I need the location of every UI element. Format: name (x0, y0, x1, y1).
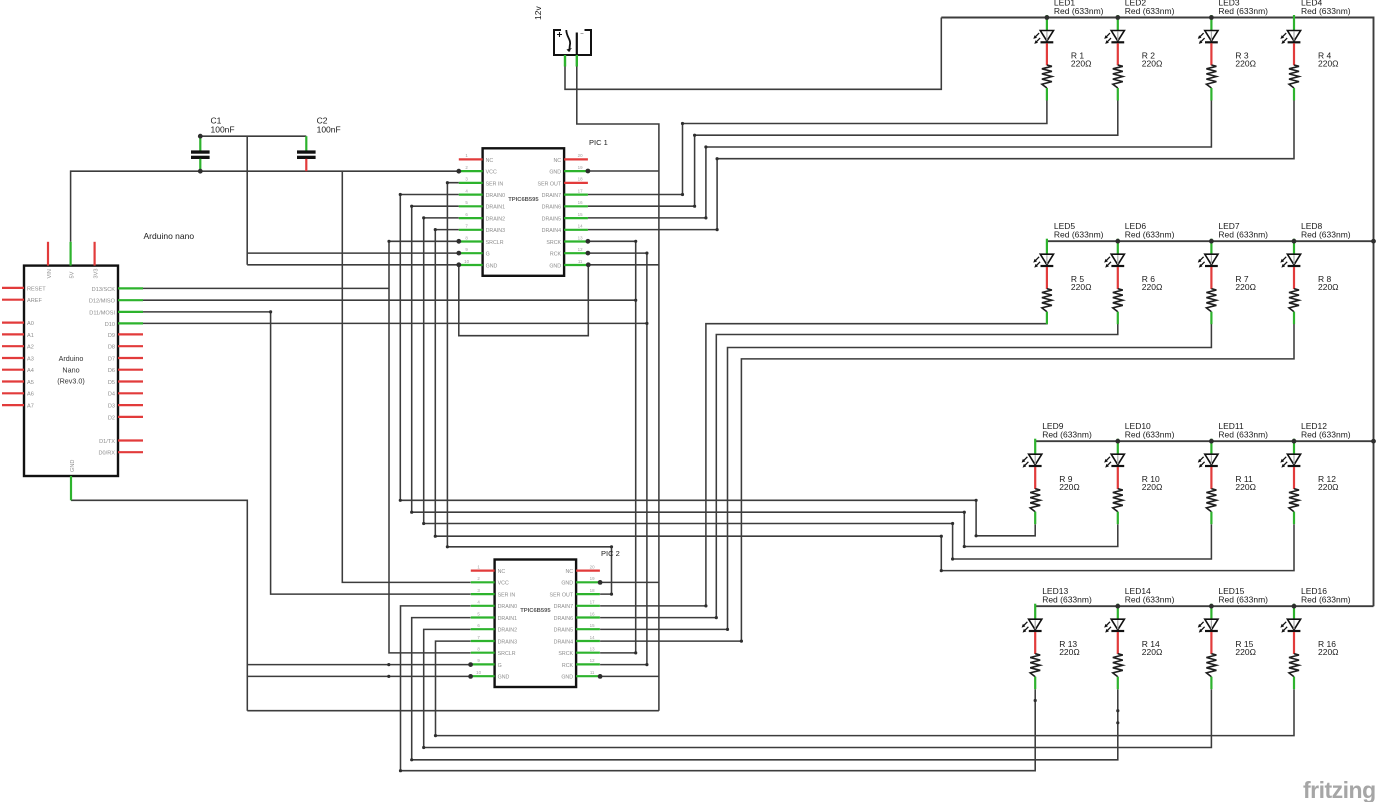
node joint-D10-RCK (645, 322, 648, 325)
capacitor C2 100nF (297, 116, 341, 172)
PIC2 pin 7 DRAIN3 (471, 640, 495, 642)
svg-text:AREF: AREF (27, 298, 43, 304)
svg-text:D7: D7 (108, 356, 115, 362)
svg-text:15: 15 (578, 212, 583, 217)
wire bus row2 (1047, 240, 1374, 242)
node joint-G2 (387, 663, 390, 666)
PIC1 pin 17 DRAIN7 (564, 194, 588, 196)
svg-text:A3: A3 (27, 356, 34, 362)
wire SRCLR chain PIC1-PIC2 (389, 241, 471, 653)
LED15 Red (633nm) (1198, 586, 1268, 654)
svg-text:12v: 12v (533, 6, 543, 20)
svg-text:Red (633nm): Red (633nm) (1218, 595, 1268, 605)
node PIC1-p13 (586, 239, 591, 244)
Arduino pin D4 (118, 392, 143, 394)
PIC2 pin 1 NC (471, 569, 495, 571)
svg-text:SER OUT: SER OUT (550, 593, 574, 599)
svg-text:D4: D4 (108, 392, 115, 398)
node joint-D12-SRCK (634, 299, 637, 302)
PIC2 pin 2 VCC (471, 581, 495, 583)
svg-text:G: G (498, 663, 502, 669)
svg-text:DRAIN5: DRAIN5 (554, 628, 573, 634)
PIC1 pin 6 DRAIN2 (459, 217, 483, 219)
PIC1 pin 2 VCC (459, 170, 483, 172)
svg-text:220Ω: 220Ω (1142, 282, 1163, 292)
svg-text:A4: A4 (27, 368, 34, 374)
svg-text:GND: GND (549, 170, 561, 176)
Arduino pin GND (70, 476, 72, 500)
svg-text:SER IN: SER IN (498, 593, 516, 599)
svg-text:A7: A7 (27, 404, 34, 410)
LED14 Red (633nm) (1104, 586, 1174, 654)
svg-text:D10: D10 (105, 322, 115, 328)
node bus2-right (1371, 239, 1376, 244)
svg-text:14: 14 (578, 224, 583, 229)
Arduino pin VIN (47, 242, 49, 266)
resistor R12 220ohm (1289, 474, 1339, 524)
svg-text:Arduino nano: Arduino nano (144, 231, 195, 241)
LED10 Red (633nm) (1104, 421, 1174, 489)
svg-text:GND: GND (561, 581, 573, 587)
PIC1 pin 14 DRAIN4 (564, 229, 588, 231)
svg-text:DRAIN4: DRAIN4 (542, 228, 561, 234)
wire R12 to DRAIN3 (435, 230, 1294, 571)
resistor R1 220ohm (1042, 50, 1092, 100)
node bus3-LED11 (1209, 439, 1214, 444)
PIC1 pin 10 GND (459, 264, 483, 266)
wire RCK1 to RCK2 (588, 253, 647, 664)
node bend-R13 (399, 769, 402, 772)
svg-text:D5: D5 (108, 380, 115, 386)
PIC1 pin 11 GND (564, 264, 588, 266)
wire R4 to DRAIN4 (588, 101, 1294, 230)
node bend-P2D6 (715, 616, 718, 619)
node bend-R3 (704, 145, 707, 148)
PIC2 pin 5 DRAIN1 (471, 616, 495, 618)
node bus3-LED12 (1292, 439, 1297, 444)
Arduino pin D1/TX (118, 439, 143, 441)
node bus4-LED14 (1115, 604, 1120, 609)
node bend-RCK2 (645, 663, 648, 666)
svg-text:D0/RX: D0/RX (99, 451, 116, 457)
svg-text:220Ω: 220Ω (1318, 482, 1339, 492)
LED7 Red (633nm) (1198, 221, 1268, 289)
svg-text:100nF: 100nF (317, 124, 341, 134)
wire 5V to PIC2 VCC (342, 171, 470, 582)
node bend-R10b (963, 511, 966, 514)
svg-text:14: 14 (590, 635, 595, 640)
svg-text:220Ω: 220Ω (1071, 58, 1092, 68)
LED1 Red (633nm) (1033, 0, 1103, 65)
node bend-D6c (693, 205, 696, 208)
svg-text:Red (633nm): Red (633nm) (1301, 595, 1351, 605)
wire bus row3 (1035, 440, 1373, 442)
svg-text:220Ω: 220Ω (1071, 282, 1092, 292)
svg-text:Red (633nm): Red (633nm) (1218, 430, 1268, 440)
PIC2 pin 4 DRAIN0 (471, 605, 495, 607)
PIC2 pin 8 SRCLR (471, 652, 495, 654)
svg-text:220Ω: 220Ω (1059, 647, 1080, 657)
node joint-GND2 (387, 675, 390, 678)
svg-text:SRCLR: SRCLR (486, 240, 504, 246)
resistor R3 220ohm (1206, 50, 1256, 100)
svg-text:Red (633nm): Red (633nm) (1125, 430, 1175, 440)
svg-text:Red (633nm): Red (633nm) (1301, 230, 1351, 240)
svg-text:VIN: VIN (47, 269, 53, 278)
node bend-D0c (399, 499, 402, 502)
Arduino pin A7 (2, 404, 24, 406)
node PIC1-p9 (456, 251, 461, 256)
svg-text:Red (633nm): Red (633nm) (1301, 6, 1351, 16)
resistor R7 220ohm (1206, 274, 1256, 324)
wire 12V- jack to GND vertical (577, 67, 659, 711)
node bend-D5c (704, 216, 707, 219)
Arduino pin A3 (2, 357, 24, 359)
node joint-R14v (1116, 709, 1119, 712)
PIC2 pin 13 SRCK (576, 652, 600, 654)
node bus1-LED2 (1115, 15, 1120, 20)
node bend-R1 (681, 122, 684, 125)
svg-text:DRAIN2: DRAIN2 (486, 217, 505, 223)
Arduino pin A5 (2, 380, 24, 382)
svg-text:G: G (486, 252, 490, 258)
wire R11 to DRAIN2 (424, 218, 1212, 559)
PIC2 pin 11 GND (576, 675, 600, 677)
wire R8 to PIC2 DRAIN4 (600, 320, 1294, 641)
PIC2 pin 12 RCK (576, 663, 600, 665)
PIC2 pin 9 G (471, 663, 495, 665)
Arduino pin D12/MISO (118, 299, 143, 301)
Arduino pin D13/SCK (118, 287, 143, 289)
svg-text:18: 18 (578, 177, 583, 182)
PIC2 pin 18 SER OUT (576, 593, 600, 595)
svg-text:SRCK: SRCK (558, 651, 573, 657)
LED6 Red (633nm) (1104, 221, 1174, 289)
svg-text:220Ω: 220Ω (1142, 58, 1163, 68)
Arduino pin A0 (2, 322, 24, 324)
svg-text:20: 20 (578, 153, 583, 158)
node bus3-LED10 (1115, 439, 1120, 444)
Arduino pin A6 (2, 392, 24, 394)
svg-text:RESET: RESET (27, 286, 46, 292)
svg-text:Red (633nm): Red (633nm) (1218, 230, 1268, 240)
node PIC2-p9 (468, 662, 473, 667)
wire D11/MOSI to PIC2 SERIN (143, 312, 471, 594)
Arduino pin A4 (2, 369, 24, 371)
wire cap-top to PIC1 GND vertical (246, 136, 248, 265)
svg-text:TPIC6B595: TPIC6B595 (508, 197, 539, 203)
svg-text:19: 19 (590, 576, 595, 581)
node bus2-LED7 (1209, 239, 1214, 244)
node bend-R16 (434, 734, 437, 737)
svg-text:PIC 1: PIC 1 (589, 138, 608, 147)
svg-text:DRAIN3: DRAIN3 (486, 228, 505, 234)
svg-text:D12/MISO: D12/MISO (89, 299, 116, 305)
node bend-SER2b (610, 593, 613, 596)
Arduino pin D10 (118, 322, 143, 324)
node PIC1-p8 (456, 239, 461, 244)
svg-text:SRCK: SRCK (546, 240, 561, 246)
svg-text:DRAIN6: DRAIN6 (542, 205, 561, 211)
svg-text:NC: NC (565, 569, 573, 575)
svg-text:220Ω: 220Ω (1318, 282, 1339, 292)
svg-text:DRAIN0: DRAIN0 (486, 193, 505, 199)
svg-text:(Rev3.0): (Rev3.0) (57, 377, 85, 386)
LED16 Red (633nm) (1280, 586, 1350, 654)
svg-text:Arduino: Arduino (59, 354, 84, 363)
resistor R11 220ohm (1206, 474, 1256, 524)
resistor R16 220ohm (1289, 639, 1339, 689)
wire GND2 left (247, 675, 471, 677)
LED9 Red (633nm) (1022, 421, 1092, 489)
node bend-P2D5 (726, 628, 729, 631)
wire R10 to DRAIN1 (412, 206, 1118, 546)
Arduino pin A2 (2, 345, 24, 347)
PIC1 pin 1 NC (459, 158, 483, 160)
svg-text:5V: 5V (69, 271, 75, 278)
svg-text:16: 16 (590, 611, 595, 616)
op-amp PIC1 TPIC6B595 body (483, 148, 564, 275)
PIC1 pin 18 SER OUT (564, 182, 588, 184)
resistor R14 220ohm (1113, 639, 1163, 689)
svg-text:NC: NC (498, 569, 506, 575)
PIC2 pin 15 DRAIN5 (576, 628, 600, 630)
svg-text:Red (633nm): Red (633nm) (1054, 6, 1104, 16)
svg-text:D1/TX: D1/TX (99, 439, 115, 445)
PIC2 pin 10 GND (471, 675, 495, 677)
Arduino pin A1 (2, 333, 24, 335)
svg-text:220Ω: 220Ω (1235, 647, 1256, 657)
svg-text:A2: A2 (27, 345, 34, 351)
wire G1 to gnd vertical (247, 252, 459, 254)
PIC1 pin 13 SRCK (564, 240, 588, 242)
node bend-D1c (410, 511, 413, 514)
node PIC2-p11 (598, 674, 603, 679)
svg-text:13: 13 (578, 235, 583, 240)
LED4 Red (633nm) (1280, 0, 1350, 65)
wire bus row1 + right riser (941, 18, 1373, 607)
node bus2-LED6 (1115, 239, 1120, 244)
svg-text:17: 17 (578, 188, 583, 193)
PIC1 pin 7 DRAIN3 (459, 229, 483, 231)
wire R1 to DRAIN7 (588, 101, 1047, 195)
jack pin - (576, 55, 578, 67)
svg-text:D9: D9 (108, 333, 115, 339)
node bend-R4 (716, 157, 719, 160)
node bend-P2D7 (704, 604, 707, 607)
svg-text:DRAIN7: DRAIN7 (542, 193, 561, 199)
wire bus row4 (1035, 605, 1373, 607)
svg-text:220Ω: 220Ω (1235, 482, 1256, 492)
wire G2 left (247, 664, 471, 666)
node PIC1-p11 (586, 262, 591, 267)
PIC1 pin 3 SER IN (459, 182, 483, 184)
node rail-VCC1 (456, 169, 461, 174)
wire D13/SCK (143, 287, 389, 289)
node bend-D4c (716, 228, 719, 231)
node bend-SER2 (610, 545, 613, 548)
node PIC1-p10 (456, 262, 461, 267)
node bend-DRAIN2 (422, 216, 425, 219)
svg-text:DRAIN7: DRAIN7 (554, 604, 573, 610)
resistor R4 220ohm (1289, 50, 1339, 100)
svg-text:VCC: VCC (498, 581, 509, 587)
wire R13 to PIC2 DRAIN0 (401, 606, 1036, 771)
node PIC2-p10 (468, 674, 473, 679)
node PIC1-p12 (586, 251, 591, 256)
svg-text:RCK: RCK (562, 663, 574, 669)
svg-text:SRCLR: SRCLR (498, 651, 516, 657)
wire D10 to RCK (143, 322, 647, 324)
PIC2 pin 3 SER IN (471, 593, 495, 595)
resistor R15 220ohm (1206, 639, 1256, 689)
node bend-SERc (446, 545, 449, 548)
capacitor C1 100nF (191, 116, 235, 172)
wire C1-C2 top link (200, 135, 306, 137)
op-amp PIC2 TPIC6B595 body (495, 560, 576, 688)
node bend-D2c (422, 522, 425, 525)
svg-text:Nano: Nano (62, 365, 79, 374)
resistor R5 220ohm (1042, 274, 1092, 324)
svg-text:DRAIN4: DRAIN4 (554, 639, 573, 645)
LED13 Red (633nm) (1022, 586, 1092, 654)
PIC1 pin 16 DRAIN6 (564, 205, 588, 207)
wire R3 to DRAIN5 (588, 101, 1212, 218)
LED12 Red (633nm) (1280, 421, 1350, 489)
jack pin + (564, 55, 566, 67)
power jack J1 12v (554, 30, 591, 55)
Arduino pin RESET (2, 287, 24, 289)
PIC1 pin 12 RCK (564, 252, 588, 254)
svg-text:Red (633nm): Red (633nm) (1042, 430, 1092, 440)
node bend-SRCLR (387, 240, 390, 243)
wire R16 to PIC2 DRAIN3 (436, 641, 1295, 736)
svg-text:Red (633nm): Red (633nm) (1301, 430, 1351, 440)
node bus4-LED15 (1209, 604, 1214, 609)
Arduino Nano U1 (24, 231, 194, 476)
node bus2-LED8 (1292, 239, 1297, 244)
wire 5V rail (71, 171, 459, 242)
wire PIC2 GND19 to main GND (600, 581, 659, 583)
node bend-R12b (940, 535, 943, 538)
wire GND U under PIC1 (459, 265, 589, 336)
svg-text:DRAIN5: DRAIN5 (542, 217, 561, 223)
svg-text:GND: GND (70, 460, 76, 472)
node bend-D7c (681, 193, 684, 196)
Arduino pin D7 (118, 357, 143, 359)
svg-text:D8: D8 (108, 345, 115, 351)
PIC2 pin 17 DRAIN7 (576, 605, 600, 607)
resistor R6 220ohm (1113, 274, 1163, 324)
PIC1 pin 15 DRAIN5 (564, 217, 588, 219)
wire R6 to PIC2 DRAIN6 (600, 320, 1118, 617)
Arduino pin D8 (118, 345, 143, 347)
LED3 Red (633nm) (1198, 0, 1268, 65)
resistor R13 220ohm (1030, 639, 1080, 689)
svg-text:D6: D6 (108, 368, 115, 374)
svg-text:VCC: VCC (486, 170, 497, 176)
node bus1-LED1 (1045, 15, 1050, 20)
Arduino pin D6 (118, 369, 143, 371)
svg-text:Red (633nm): Red (633nm) (1218, 6, 1268, 16)
PIC2 pin 16 DRAIN6 (576, 616, 600, 618)
Arduino pin D2 (118, 416, 143, 418)
PIC1 pin 9 G (459, 252, 483, 254)
node bus4-LED16 (1292, 604, 1297, 609)
resistor R2 220ohm (1113, 50, 1163, 100)
LED8 Red (633nm) (1280, 221, 1350, 289)
node bend-D11 (269, 310, 272, 313)
svg-text:DRAIN2: DRAIN2 (498, 628, 517, 634)
node bend-R9a (975, 534, 978, 537)
PIC1 pin 20 NC (564, 158, 588, 160)
svg-text:220Ω: 220Ω (1059, 482, 1080, 492)
node bend-R11b (951, 522, 954, 525)
svg-text:Red (633nm): Red (633nm) (1125, 6, 1175, 16)
svg-text:11: 11 (590, 670, 595, 675)
svg-text:100nF: 100nF (211, 124, 235, 134)
svg-text:10: 10 (464, 259, 469, 264)
LED11 Red (633nm) (1198, 421, 1268, 489)
node bend-SRCK2 (634, 651, 637, 654)
svg-text:D13/SCK: D13/SCK (92, 287, 116, 293)
svg-text:DRAIN0: DRAIN0 (498, 604, 517, 610)
svg-text:Red (633nm): Red (633nm) (1054, 230, 1104, 240)
node bend-P2D4 (740, 640, 743, 643)
svg-text:17: 17 (590, 600, 595, 605)
wire PIC2 GND11 to main GND (600, 675, 659, 677)
svg-text:11: 11 (578, 259, 583, 264)
svg-text:A1: A1 (27, 333, 34, 339)
node bend-DRAIN1 (410, 205, 413, 208)
svg-text:19: 19 (578, 165, 583, 170)
node PIC2-p19 (598, 580, 603, 585)
resistor R9 220ohm (1030, 474, 1080, 524)
svg-text:D3: D3 (108, 404, 115, 410)
node PIC1-p19 (586, 169, 591, 174)
svg-text:220Ω: 220Ω (1142, 647, 1163, 657)
node bend-R11a (951, 557, 954, 560)
node bend-SERIN1 (446, 181, 449, 184)
Arduino pin D0/RX (118, 451, 143, 453)
resistor R10 220ohm (1113, 474, 1163, 524)
wire R15 to PIC2 DRAIN2 (424, 629, 1212, 747)
svg-text:12: 12 (590, 658, 595, 663)
svg-text:SER OUT: SER OUT (538, 181, 562, 187)
svg-text:SER IN: SER IN (486, 181, 504, 187)
PIC1 pin 5 DRAIN1 (459, 205, 483, 207)
node bend-R12a (940, 569, 943, 572)
svg-text:10: 10 (476, 670, 481, 675)
svg-text:220Ω: 220Ω (1235, 58, 1256, 68)
wire R9 to DRAIN0 (400, 195, 1035, 536)
svg-text:3V3: 3V3 (93, 269, 99, 279)
node bend-DRAIN3 (434, 228, 437, 231)
PIC1 pin 8 SRCLR (459, 240, 483, 242)
svg-text:12: 12 (578, 247, 583, 252)
wire R14 to PIC2 DRAIN1 (412, 618, 1118, 760)
node bend-RCK1 (645, 252, 648, 255)
node bus3-right (1371, 439, 1376, 444)
Arduino pin D11/MOSI (118, 311, 143, 313)
svg-text:D2: D2 (108, 415, 115, 421)
svg-text:PIC 2: PIC 2 (601, 549, 620, 558)
node C1-top (198, 134, 203, 139)
wire PIC2 SEROUT to PIC1 SERIN (447, 183, 611, 594)
svg-text:A5: A5 (27, 380, 34, 386)
Arduino pin D3 (118, 404, 143, 406)
node bend-R14 (410, 758, 413, 761)
